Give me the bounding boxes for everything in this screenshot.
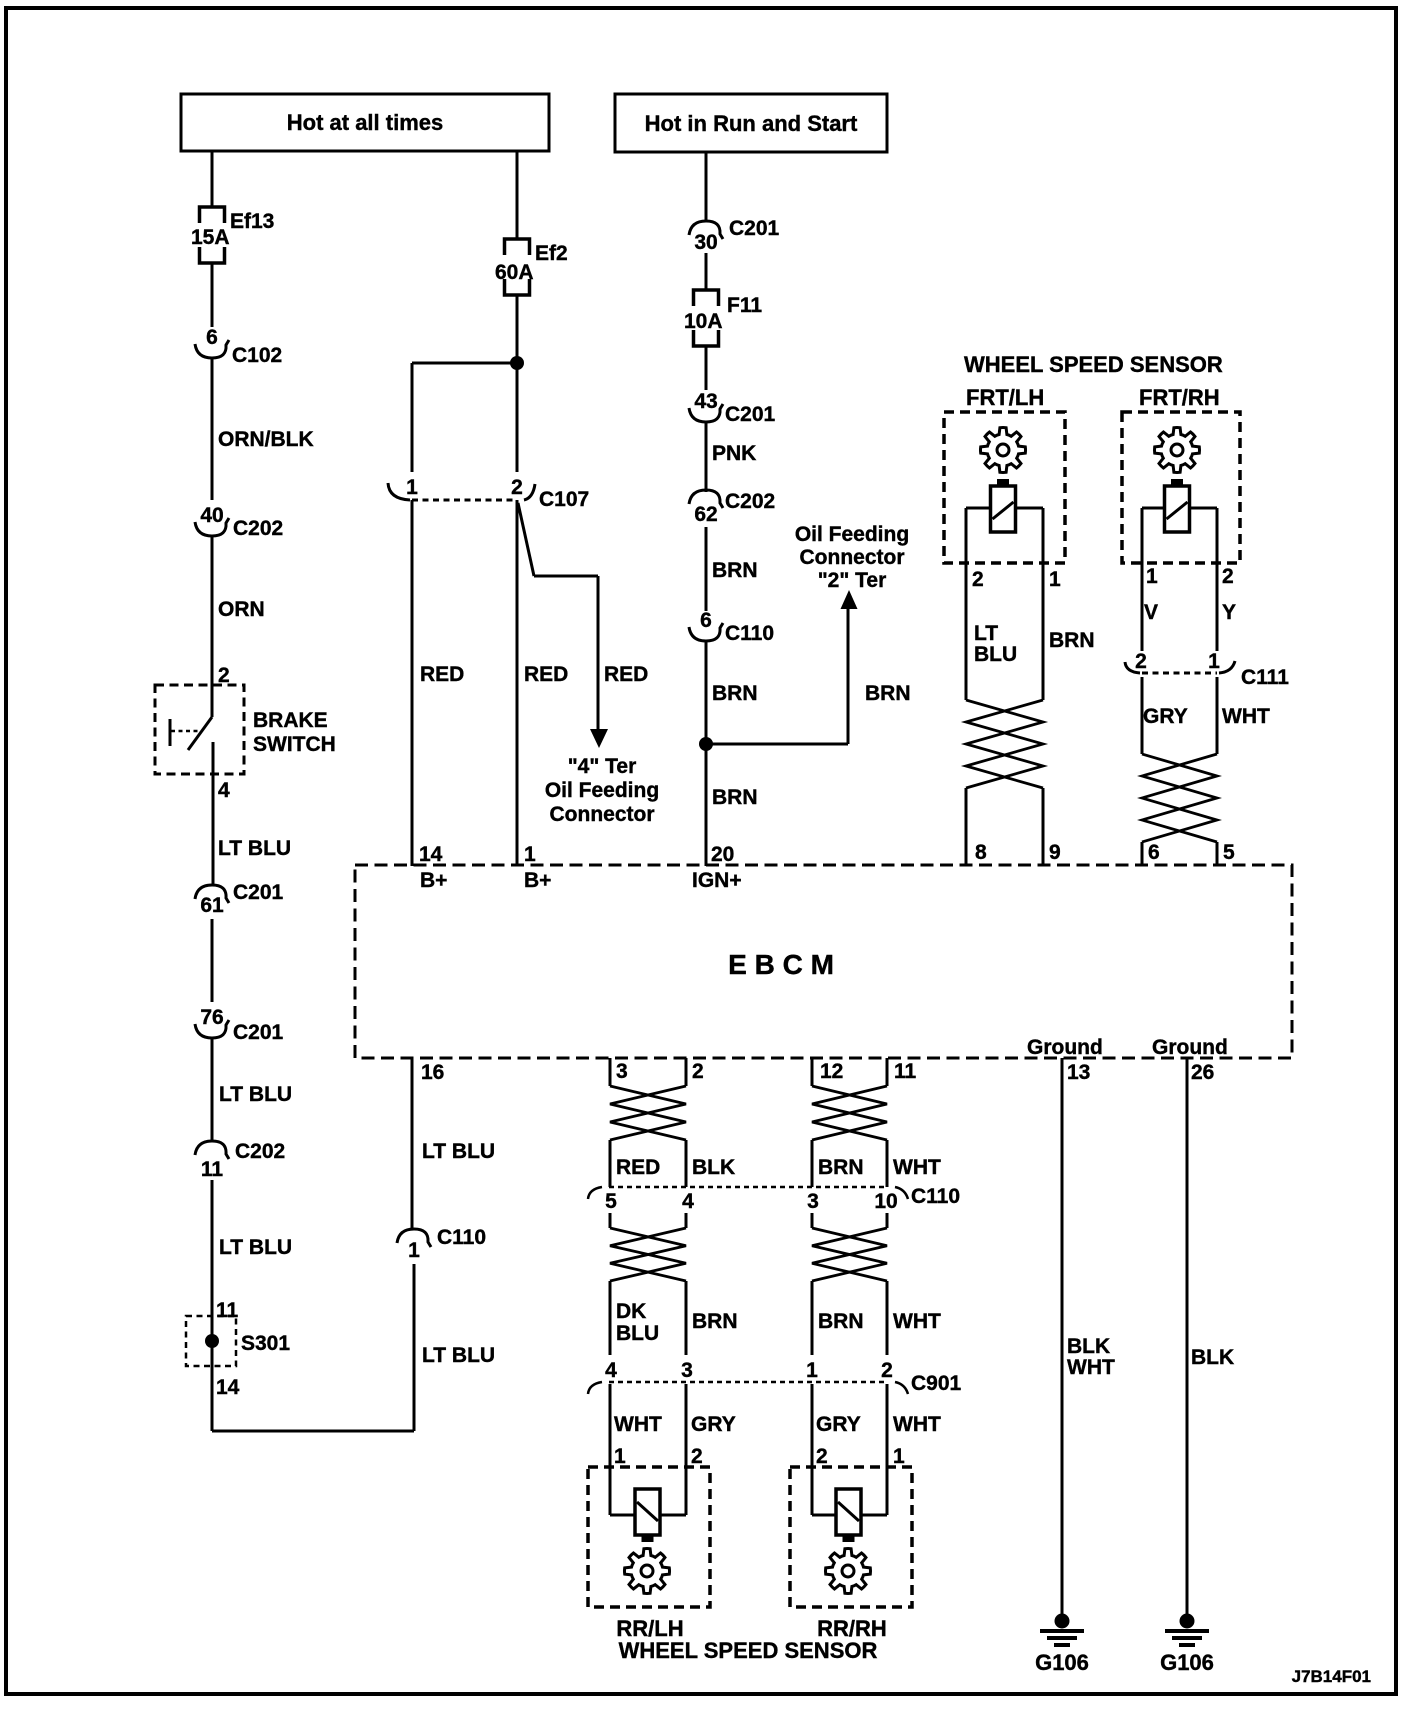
svg-text:RED: RED bbox=[524, 663, 568, 686]
svg-text:ORN: ORN bbox=[218, 598, 265, 621]
wires GRY WHT to RR/RH bbox=[811, 1384, 814, 1515]
splice S301 box bbox=[186, 1316, 236, 1366]
svg-text:WHT: WHT bbox=[614, 1413, 662, 1436]
svg-text:15A: 15A bbox=[191, 226, 230, 249]
svg-text:5: 5 bbox=[605, 1190, 617, 1213]
wire junction to pin1 branch bbox=[412, 362, 517, 365]
svg-text:ORN/BLK: ORN/BLK bbox=[218, 428, 314, 451]
wire BRN to junction bbox=[705, 641, 708, 866]
wire LT BLU from EBCM 16 bbox=[411, 1058, 414, 1229]
connector C202 pin 62 bbox=[689, 490, 723, 508]
svg-text:WHT: WHT bbox=[893, 1156, 941, 1179]
twisted pair FRT/RH bbox=[1142, 754, 1217, 842]
wire from Hot at all times to fuse Ef13 bbox=[211, 151, 214, 207]
wire GRY bbox=[1141, 677, 1144, 754]
wire fuse Ef2 to junction bbox=[516, 295, 519, 363]
wire BLK from EBCM 26 bbox=[1186, 1058, 1189, 1614]
wires EBCM 12 11 stubs bbox=[811, 1058, 814, 1086]
svg-text:BLU: BLU bbox=[974, 643, 1017, 666]
wire LT BLU below brake switch bbox=[212, 774, 215, 885]
svg-text:6: 6 bbox=[700, 609, 712, 632]
fuse Ef2 60A bbox=[505, 239, 530, 255]
sensor FRT/LH leads bbox=[966, 507, 991, 510]
svg-text:9: 9 bbox=[1049, 841, 1061, 864]
sensor FRT/RH gear bbox=[1154, 427, 1199, 472]
wires RED BLK bbox=[609, 1140, 612, 1187]
svg-text:B+: B+ bbox=[420, 869, 447, 892]
twisted pair RR/LH lower bbox=[610, 1228, 686, 1281]
svg-text:LT BLU: LT BLU bbox=[219, 1236, 292, 1259]
sensor FRT/RH leads bbox=[1142, 507, 1164, 510]
connector C110 pin 1 bbox=[397, 1229, 431, 1247]
svg-text:1: 1 bbox=[524, 843, 536, 866]
svg-text:2: 2 bbox=[691, 1445, 703, 1468]
connector C201 pin 30 bbox=[689, 221, 723, 239]
svg-text:14: 14 bbox=[216, 1376, 240, 1399]
svg-text:30: 30 bbox=[694, 231, 717, 254]
svg-text:11: 11 bbox=[201, 1158, 224, 1181]
sensor RR/RH box bbox=[790, 1467, 912, 1607]
svg-text:C201: C201 bbox=[233, 1021, 284, 1044]
power box: Hot at all times bbox=[181, 94, 549, 151]
wires FRT/LH to EBCM bbox=[965, 788, 968, 866]
wires BRN WHT bbox=[811, 1140, 814, 1187]
svg-text:4: 4 bbox=[605, 1359, 617, 1382]
svg-text:Ef2: Ef2 bbox=[535, 242, 568, 265]
wire BRN bbox=[705, 527, 708, 611]
svg-text:C202: C202 bbox=[235, 1140, 285, 1163]
svg-text:1: 1 bbox=[408, 1239, 420, 1262]
wire from S301 to C110 branch bbox=[212, 1430, 414, 1433]
wire BLK WHT from EBCM 13 bbox=[1061, 1058, 1064, 1614]
sensor RR/RH element bbox=[836, 1489, 861, 1535]
svg-text:GRY: GRY bbox=[1143, 705, 1188, 728]
wires below C110 right pair bbox=[811, 1213, 814, 1228]
wires BRN WHT lower bbox=[811, 1281, 814, 1355]
svg-text:2: 2 bbox=[1135, 650, 1147, 673]
svg-text:Oil Feeding: Oil Feeding bbox=[795, 523, 909, 546]
svg-text:BRN: BRN bbox=[712, 559, 758, 582]
svg-text:60A: 60A bbox=[495, 261, 534, 284]
svg-text:RED: RED bbox=[604, 663, 648, 686]
svg-text:1: 1 bbox=[806, 1359, 818, 1382]
svg-text:3: 3 bbox=[807, 1190, 819, 1213]
twisted pair FRT/LH bbox=[966, 700, 1043, 788]
sensor RR/LH leads bbox=[610, 1514, 635, 1517]
junction node col2 bbox=[510, 356, 524, 370]
sensor FRT/RH box bbox=[1122, 412, 1240, 563]
sensor FRT/LH gear bbox=[980, 427, 1025, 472]
svg-text:Ground: Ground bbox=[1027, 1036, 1103, 1059]
brake switch box bbox=[155, 685, 244, 774]
wire fuse Ef13 to C102 bbox=[211, 263, 214, 327]
svg-text:BRAKE: BRAKE bbox=[253, 709, 328, 732]
wire RED branch to oil feeding connector bbox=[518, 503, 534, 576]
svg-text:C107: C107 bbox=[539, 488, 589, 511]
svg-text:SWITCH: SWITCH bbox=[253, 733, 336, 756]
splice S301 junction bbox=[205, 1334, 219, 1348]
svg-text:10: 10 bbox=[874, 1190, 897, 1213]
svg-text:BLK: BLK bbox=[1191, 1346, 1234, 1369]
svg-text:LT BLU: LT BLU bbox=[422, 1344, 495, 1367]
wire WHT bbox=[1216, 677, 1219, 754]
svg-text:12: 12 bbox=[820, 1060, 843, 1083]
wire to C201 76 bbox=[211, 919, 214, 1002]
svg-text:Connector: Connector bbox=[550, 803, 655, 826]
wire RED pin1 to EBCM 14 bbox=[411, 500, 414, 866]
wires EBCM 3 2 stubs bbox=[609, 1058, 612, 1086]
svg-text:FRT/RH: FRT/RH bbox=[1139, 385, 1220, 410]
EBCM box bbox=[355, 865, 1292, 1058]
wire RED pin2 to EBCM 1 bbox=[516, 500, 519, 866]
svg-text:LT BLU: LT BLU bbox=[219, 1083, 292, 1106]
svg-text:WHEEL SPEED SENSOR: WHEEL SPEED SENSOR bbox=[964, 352, 1223, 377]
twisted pair RR/RH lower bbox=[812, 1228, 887, 1281]
svg-text:BRN: BRN bbox=[1049, 629, 1095, 652]
svg-text:G106: G106 bbox=[1160, 1650, 1214, 1675]
wire ORN bbox=[211, 536, 214, 685]
svg-text:11: 11 bbox=[894, 1060, 917, 1083]
svg-text:2: 2 bbox=[511, 476, 523, 499]
svg-text:WHT: WHT bbox=[893, 1413, 941, 1436]
svg-text:61: 61 bbox=[200, 894, 224, 917]
sensor RR/LH box bbox=[588, 1467, 710, 1607]
svg-text:BRN: BRN bbox=[865, 682, 911, 705]
svg-text:40: 40 bbox=[200, 504, 223, 527]
wires below C110 left pair bbox=[609, 1213, 612, 1228]
wires FRT/RH to EBCM bbox=[1141, 842, 1144, 866]
svg-text:C201: C201 bbox=[233, 881, 284, 904]
svg-text:G106: G106 bbox=[1035, 1650, 1089, 1675]
arrowhead to 2 Ter oil feeding connector bbox=[841, 590, 858, 609]
svg-text:2: 2 bbox=[692, 1060, 704, 1083]
svg-text:Ef13: Ef13 bbox=[230, 210, 274, 233]
svg-text:3: 3 bbox=[681, 1359, 693, 1382]
svg-text:2: 2 bbox=[1222, 565, 1234, 588]
svg-text:RED: RED bbox=[420, 663, 464, 686]
sensor FRT/LH box bbox=[944, 412, 1065, 563]
svg-text:14: 14 bbox=[419, 843, 443, 866]
wire LT BLU bbox=[211, 1038, 214, 1141]
svg-text:C201: C201 bbox=[729, 217, 780, 240]
sensor RR/RH gear bbox=[825, 1548, 870, 1593]
svg-text:PNK: PNK bbox=[712, 442, 756, 465]
svg-text:1: 1 bbox=[1208, 650, 1220, 673]
svg-text:2: 2 bbox=[881, 1359, 893, 1382]
fuse Ef13 15A bbox=[200, 207, 225, 223]
svg-text:8: 8 bbox=[975, 841, 987, 864]
svg-text:WHEEL SPEED SENSOR: WHEEL SPEED SENSOR bbox=[619, 1638, 878, 1663]
sensor FRT/LH element bbox=[991, 486, 1016, 532]
svg-text:5: 5 bbox=[1223, 841, 1235, 864]
svg-text:6: 6 bbox=[206, 326, 218, 349]
svg-text:BRN: BRN bbox=[712, 682, 758, 705]
wires DK BLU BRN bbox=[609, 1281, 612, 1355]
wire LT BLU to S301 junction bbox=[413, 1264, 416, 1431]
svg-text:76: 76 bbox=[200, 1006, 223, 1029]
svg-text:1: 1 bbox=[1146, 565, 1158, 588]
connector C901 row bbox=[588, 1382, 602, 1394]
svg-text:LT: LT bbox=[974, 622, 998, 645]
svg-text:BRN: BRN bbox=[818, 1156, 864, 1179]
svg-text:2: 2 bbox=[816, 1445, 828, 1468]
sensor RR/LH gear bbox=[624, 1548, 669, 1593]
svg-text:62: 62 bbox=[694, 503, 717, 526]
wire PNK bbox=[705, 422, 708, 492]
svg-text:BRN: BRN bbox=[692, 1310, 738, 1333]
svg-text:13: 13 bbox=[1067, 1061, 1090, 1084]
fuse F11 10A bbox=[694, 290, 719, 306]
svg-text:16: 16 bbox=[421, 1061, 444, 1084]
svg-text:20: 20 bbox=[711, 843, 734, 866]
svg-text:FRT/LH: FRT/LH bbox=[966, 385, 1044, 410]
svg-text:C901: C901 bbox=[911, 1372, 962, 1395]
svg-text:43: 43 bbox=[694, 390, 717, 413]
svg-text:Y: Y bbox=[1222, 601, 1236, 624]
svg-text:1: 1 bbox=[893, 1445, 905, 1468]
svg-text:1: 1 bbox=[1049, 568, 1061, 591]
svg-text:BLK: BLK bbox=[692, 1156, 735, 1179]
svg-text:C202: C202 bbox=[233, 517, 283, 540]
svg-text:1: 1 bbox=[614, 1445, 626, 1468]
svg-text:C110: C110 bbox=[437, 1226, 486, 1249]
svg-text:B+: B+ bbox=[524, 869, 551, 892]
svg-text:S301: S301 bbox=[241, 1332, 290, 1355]
svg-text:10A: 10A bbox=[684, 310, 723, 333]
svg-text:WHT: WHT bbox=[1067, 1356, 1115, 1379]
twisted pair RR/RH upper bbox=[812, 1086, 887, 1140]
svg-text:BRN: BRN bbox=[712, 786, 758, 809]
connector C201 pin 61 bbox=[195, 885, 229, 903]
svg-text:Hot at all times: Hot at all times bbox=[287, 110, 443, 135]
svg-text:WHT: WHT bbox=[893, 1310, 941, 1333]
wire from Hot in Run and Start to C201 30 bbox=[705, 152, 708, 221]
svg-text:Hot in Run and Start: Hot in Run and Start bbox=[645, 111, 858, 136]
svg-text:LT BLU: LT BLU bbox=[422, 1140, 495, 1163]
svg-text:C111: C111 bbox=[1241, 666, 1289, 689]
svg-text:26: 26 bbox=[1191, 1061, 1214, 1084]
junction node col3 bbox=[699, 737, 713, 751]
svg-text:"4" Ter: "4" Ter bbox=[568, 755, 637, 778]
svg-text:WHT: WHT bbox=[1222, 705, 1270, 728]
svg-text:GRY: GRY bbox=[816, 1413, 861, 1436]
sensor FRT/RH element bbox=[1165, 486, 1190, 532]
power box: Hot in Run and Start bbox=[615, 94, 887, 152]
svg-text:C201: C201 bbox=[725, 403, 776, 426]
svg-text:J7B14F01: J7B14F01 bbox=[1292, 1667, 1371, 1686]
svg-text:"2" Ter: "2" Ter bbox=[818, 569, 887, 592]
twisted pair RR/LH upper bbox=[610, 1086, 686, 1140]
wires WHT GRY to RR/LH bbox=[609, 1384, 612, 1515]
connector C110 row bbox=[588, 1187, 602, 1199]
svg-text:Connector: Connector bbox=[800, 546, 905, 569]
wire LT BLU to S301 bbox=[211, 1180, 214, 1431]
svg-text:BRN: BRN bbox=[818, 1310, 864, 1333]
wire from Hot at all times to fuse Ef2 bbox=[516, 151, 519, 239]
svg-text:LT BLU: LT BLU bbox=[218, 837, 291, 860]
svg-text:3: 3 bbox=[616, 1060, 628, 1083]
svg-text:4: 4 bbox=[682, 1190, 694, 1213]
svg-text:BLK: BLK bbox=[1067, 1335, 1110, 1358]
svg-text:F11: F11 bbox=[727, 294, 762, 317]
svg-text:C110: C110 bbox=[725, 622, 774, 645]
svg-text:4: 4 bbox=[218, 779, 230, 802]
arrowhead to 4 Ter oil feeding connector bbox=[590, 729, 608, 748]
svg-text:DK: DK bbox=[616, 1300, 646, 1323]
wire to fuse F11 bbox=[705, 253, 708, 290]
svg-text:RED: RED bbox=[616, 1156, 660, 1179]
svg-text:6: 6 bbox=[1148, 841, 1160, 864]
svg-text:C202: C202 bbox=[725, 490, 775, 513]
ground G106 right bbox=[1180, 1614, 1195, 1629]
brake switch contact bbox=[211, 685, 214, 717]
svg-text:Ground: Ground bbox=[1152, 1036, 1228, 1059]
svg-text:Oil Feeding: Oil Feeding bbox=[545, 779, 659, 802]
wire branch to oil feeding 2 Ter bbox=[706, 743, 848, 746]
wire junction to C107 pin2 bbox=[516, 363, 519, 472]
sensor RR/LH element bbox=[635, 1489, 660, 1535]
wire ORN/BLK bbox=[211, 358, 214, 500]
connector C202 pin 11 bbox=[195, 1141, 229, 1159]
svg-text:1: 1 bbox=[406, 476, 418, 499]
wire fuse F11 to C201 43 bbox=[705, 346, 708, 390]
sensor RR/RH leads bbox=[812, 1514, 836, 1517]
svg-text:GRY: GRY bbox=[691, 1413, 736, 1436]
svg-text:IGN+: IGN+ bbox=[692, 869, 742, 892]
svg-text:C102: C102 bbox=[232, 344, 282, 367]
svg-text:E B C M: E B C M bbox=[728, 949, 834, 980]
svg-text:V: V bbox=[1144, 601, 1158, 624]
svg-text:2: 2 bbox=[972, 568, 984, 591]
svg-text:BLU: BLU bbox=[616, 1322, 659, 1345]
svg-text:C110: C110 bbox=[911, 1185, 960, 1208]
ground G106 left bbox=[1055, 1614, 1070, 1629]
